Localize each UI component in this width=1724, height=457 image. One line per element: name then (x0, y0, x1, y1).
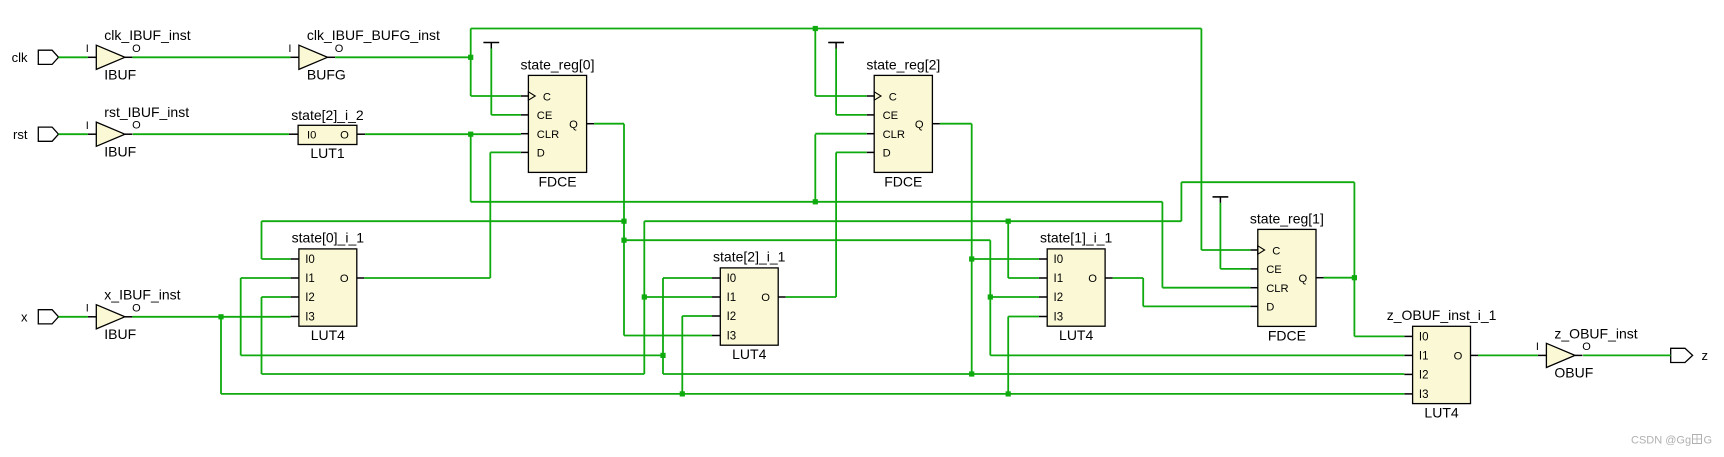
wire CLR to reg2 CLR (815, 133, 866, 135)
svg-text:O: O (132, 120, 141, 132)
svg-text:D: D (1266, 302, 1274, 314)
svg-text:I1: I1 (727, 292, 737, 304)
input port x (21, 310, 59, 325)
wire x net drop (220, 317, 222, 394)
wire CLR to reg1 CLR (1162, 287, 1250, 289)
svg-text:IBUF: IBUF (104, 144, 136, 160)
svg-text:I: I (86, 303, 89, 315)
wire clk to reg1 C (1201, 249, 1250, 251)
wire x rise to state[1]_i_1 I3 (1008, 317, 1039, 394)
junction state[0] at y221 (621, 219, 626, 224)
flip-flop state_reg[2] (FDCE) (866, 57, 940, 190)
svg-text:I2: I2 (727, 311, 737, 323)
svg-text:Q: Q (1299, 273, 1308, 285)
wire CLR drop to reg1 (1161, 202, 1163, 288)
wire state[1] drop at x644 (643, 221, 645, 374)
power symbol (const1) vcc_reg2 (828, 43, 844, 49)
wire CLR trunk vertical (470, 134, 472, 202)
wire rst: port to IBUF (59, 133, 88, 135)
wire state[0] Q out (594, 123, 624, 125)
svg-text:O: O (340, 129, 349, 141)
wire state[1] riser at x1181 (1180, 182, 1182, 221)
wire state[2] Q out (940, 123, 972, 125)
svg-text:I3: I3 (1054, 312, 1064, 324)
svg-text:I3: I3 (305, 312, 315, 324)
LUT4 state[1]_i_1 (1039, 230, 1113, 343)
power symbol (const1) vcc_reg0 (483, 43, 499, 49)
svg-text:O: O (1454, 351, 1463, 363)
svg-text:O: O (1582, 341, 1591, 353)
wire z LUT O to OBUF (1478, 354, 1538, 356)
svg-text:clk: clk (12, 50, 28, 65)
svg-text:state_reg[2]: state_reg[2] (866, 57, 940, 73)
wire state[2]_i_1 I3 stub (624, 335, 712, 337)
buffer clk_IBUF_inst (IBUF) (86, 27, 191, 82)
svg-text:CLR: CLR (537, 129, 559, 141)
svg-text:I: I (1536, 341, 1539, 353)
wire state[0] to z I1 rail (990, 354, 1404, 356)
svg-text:CLR: CLR (883, 129, 905, 141)
wire state[1] Q out (1324, 277, 1355, 279)
svg-text:Q: Q (915, 119, 924, 131)
svg-text:CE: CE (883, 110, 899, 122)
wire state[1]_i_1 I2 stub (990, 296, 1039, 298)
svg-text:O: O (340, 273, 349, 285)
junction rst trunk (468, 132, 473, 137)
junction state[1] to I1 (1006, 219, 1011, 224)
input port rst (13, 127, 58, 142)
junction clk trunk (468, 55, 473, 60)
svg-text:LUT4: LUT4 (1059, 327, 1093, 343)
svg-text:I1: I1 (1054, 273, 1064, 285)
svg-text:I: I (86, 43, 89, 55)
wire z OBUF to port (1583, 354, 1671, 356)
buffer rst_IBUF_inst (IBUF) (86, 104, 189, 159)
svg-text:state[2]_i_2: state[2]_i_2 (291, 107, 364, 123)
svg-text:IBUF: IBUF (104, 326, 136, 342)
buffer clk_IBUF_BUFG_inst (BUFG) (288, 27, 440, 82)
watermark (1631, 435, 1712, 447)
svg-text:OBUF: OBUF (1554, 365, 1593, 381)
wire vcc to reg0 CE (491, 49, 521, 115)
svg-text:clk_IBUF_BUFG_inst: clk_IBUF_BUFG_inst (307, 27, 440, 43)
junction x net (218, 314, 223, 319)
wire x_IBUF to state[0]_i_1 I3 (132, 316, 290, 318)
wire state[2]_i_1 I1 stub (644, 296, 712, 298)
svg-text:I1: I1 (1419, 351, 1429, 363)
svg-text:clk_IBUF_inst: clk_IBUF_inst (104, 27, 190, 43)
junction state[0] at y240 (621, 238, 626, 243)
svg-text:state_reg[0]: state_reg[0] (521, 57, 595, 73)
junction state[1] Q (1352, 275, 1357, 280)
input port clk (12, 50, 59, 65)
svg-text:O: O (761, 292, 770, 304)
wire clk_IBUF: IBUF to BUFG (132, 56, 290, 58)
wire state[0]_i_1 O to reg0 D (364, 152, 521, 278)
wire clk trunk vertical (470, 29, 472, 97)
wire rst LUT1 out to reg0 CLR (365, 133, 521, 135)
wire state[1] drop to state[1]_i_1 I1 (1008, 221, 1039, 278)
svg-text:I0: I0 (1054, 254, 1064, 266)
svg-text:C: C (543, 91, 551, 103)
power symbol (const1) vcc_reg1 (1213, 197, 1229, 203)
svg-text:D: D (883, 148, 891, 160)
wire state[1] y374 left rail (262, 373, 645, 375)
junction x rail to state[2]_i_1 I2 (680, 391, 685, 396)
svg-text:I2: I2 (305, 292, 315, 304)
wire z I0 stub (1354, 335, 1404, 337)
svg-text:FDCE: FDCE (884, 173, 922, 189)
svg-text:O: O (1088, 273, 1097, 285)
svg-text:I3: I3 (1419, 389, 1429, 401)
junction state[1]_i_1 I0 (969, 256, 974, 261)
flip-flop state_reg[1] (FDCE) (1250, 211, 1324, 344)
junction state[2] y355 (660, 353, 665, 358)
svg-text:state_reg[1]: state_reg[1] (1250, 211, 1324, 227)
buffer x_IBUF_inst (IBUF) (86, 287, 181, 342)
junction state[2]_i_1 I1 (642, 294, 647, 299)
svg-text:O: O (132, 302, 141, 314)
wire CLR rail (471, 201, 1163, 203)
svg-text:CE: CE (537, 110, 553, 122)
wire state[0] drop to state[1]_i_1 I2 (989, 240, 991, 355)
LUT4 state[2]_i_1 (712, 249, 786, 362)
buffer z_OBUF_inst (OBUF) (1536, 325, 1638, 380)
wire state[2] rise at x663 (662, 278, 664, 374)
svg-text:z: z (1702, 348, 1709, 363)
svg-text:CSDN @Gg: CSDN @Gg (1631, 435, 1691, 447)
svg-text:O: O (335, 43, 344, 55)
svg-text:LUT4: LUT4 (1424, 404, 1458, 420)
svg-text:FDCE: FDCE (1268, 327, 1306, 343)
junction x rail to state[1]_i_1 I3 (1006, 391, 1011, 396)
wire clk: port to IBUF (59, 56, 88, 58)
svg-text:LUT1: LUT1 (310, 145, 344, 161)
wire clk top rail (471, 28, 1202, 30)
wire x rise to state[2]_i_1 I2 (682, 316, 712, 394)
svg-text:I: I (288, 43, 291, 55)
wire clk to reg0 C (471, 95, 521, 97)
svg-text:state[2]_i_1: state[2]_i_1 (713, 249, 786, 265)
wire state[0] I0 riser (262, 221, 291, 259)
svg-text:state[0]_i_1: state[0]_i_1 (292, 230, 365, 246)
wire clk_IBUF_BUFG: BUFG output to trunk (335, 56, 471, 58)
wire state[2] y374 rail right (663, 373, 1404, 375)
junction clk top rail at reg2 (813, 26, 818, 31)
output port z (1671, 348, 1708, 363)
wire state[0] to I0 rail (262, 220, 625, 222)
svg-text:I0: I0 (727, 273, 737, 285)
wire clk drop to reg2 C (814, 29, 816, 97)
wire state[2] y355 left rail (241, 354, 663, 356)
wire rst_IBUF: IBUF to LUT1 (133, 133, 289, 135)
junction state[2] at y374 (969, 371, 974, 376)
svg-text:BUFG: BUFG (307, 67, 346, 83)
svg-text:CE: CE (1266, 264, 1282, 276)
svg-text:I0: I0 (305, 254, 315, 266)
svg-text:x_IBUF_inst: x_IBUF_inst (104, 287, 180, 303)
wire state[0] trunk (623, 124, 625, 336)
wire clk to reg2 C (815, 95, 866, 97)
svg-text:rst_IBUF_inst: rst_IBUF_inst (104, 104, 189, 120)
LUT4 state[0]_i_1 (291, 230, 365, 343)
wire state[1] y182 rail (1181, 181, 1354, 183)
svg-text:LUT4: LUT4 (732, 346, 766, 362)
LUT4 z_OBUF_inst_i_1 (1387, 307, 1497, 420)
wire state[1] rise to state[0]_i_1 I2 (262, 297, 291, 374)
svg-text:O: O (132, 43, 141, 55)
wire state[2] rise to state[0]_i_1 I1 (241, 278, 291, 355)
wire state[1] rail (644, 220, 1181, 222)
wire state[2] trunk (971, 124, 973, 374)
svg-text:I0: I0 (307, 129, 316, 141)
wire vcc to reg2 CE (836, 49, 867, 115)
wire state[1]_i_1 I0 stub (972, 258, 1039, 260)
junction CLR rail at reg2 (813, 199, 818, 204)
wire clk drop to reg1 C (1200, 29, 1202, 251)
svg-text:z_OBUF_inst: z_OBUF_inst (1554, 325, 1637, 341)
wire state[1] drop to z I0 (1353, 182, 1355, 336)
svg-text:C: C (1272, 245, 1280, 257)
wire state[2]_i_1 O to reg2 D (786, 152, 867, 297)
svg-text:LUT4: LUT4 (311, 327, 345, 343)
svg-text:I0: I0 (1419, 332, 1429, 344)
svg-text:z_OBUF_inst_i_1: z_OBUF_inst_i_1 (1387, 307, 1497, 323)
svg-text:Q: Q (569, 119, 578, 131)
svg-text:I: I (86, 120, 89, 132)
wire state[0] y240 rail (624, 239, 990, 241)
wire state[2]_i_1 I0 stub (663, 277, 712, 279)
svg-text:D: D (537, 148, 545, 160)
svg-text:I2: I2 (1419, 370, 1429, 382)
wire vcc to reg1 CE (1220, 203, 1250, 269)
LUT1 state[2]_i_2 (289, 107, 365, 161)
svg-text:CLR: CLR (1266, 283, 1288, 295)
svg-text:IBUF: IBUF (104, 67, 136, 83)
svg-text:state[1]_i_1: state[1]_i_1 (1040, 230, 1113, 246)
svg-text:rst: rst (13, 127, 28, 142)
svg-text:C: C (889, 91, 897, 103)
svg-text:FDCE: FDCE (538, 173, 576, 189)
wire x net rail (221, 393, 1404, 395)
svg-text:I3: I3 (727, 331, 737, 343)
wire state[1]_i_1 O to reg1 D (1113, 278, 1251, 306)
svg-text:I2: I2 (1054, 292, 1064, 304)
svg-text:I1: I1 (305, 273, 315, 285)
wire CLR rise to reg2 (814, 134, 816, 202)
svg-text:x: x (21, 310, 28, 325)
flip-flop state_reg[0] (FDCE) (521, 57, 595, 190)
junction state[1]_i_1 I2 (988, 294, 993, 299)
wire x: port to IBUF (59, 316, 88, 318)
svg-text:G: G (1704, 435, 1713, 447)
